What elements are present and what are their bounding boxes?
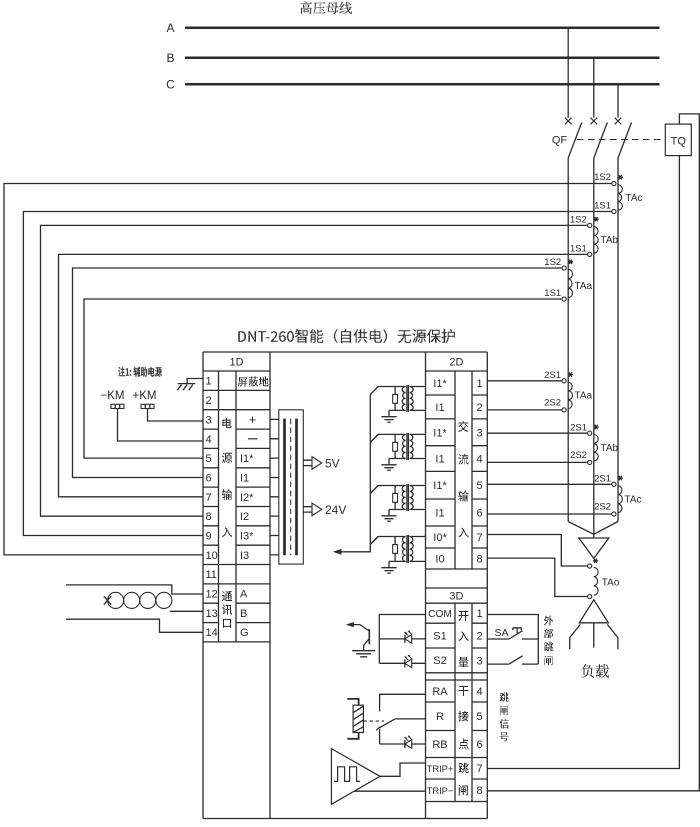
label 口	[223, 619, 231, 628]
svg-text:2S2: 2S2	[570, 450, 587, 461]
CT TAb polarity mark	[594, 217, 599, 221]
input transformer 1 primary winding	[402, 387, 405, 411]
svg-text:1S2: 1S2	[594, 172, 611, 183]
wire +KM to 1D-3	[148, 409, 204, 422]
input transformer 3 primary winding	[402, 486, 405, 510]
busbar phase B	[185, 57, 660, 60]
label 跳	[500, 692, 509, 702]
svg-text:I3: I3	[240, 550, 249, 562]
phase convergence	[568, 522, 618, 535]
svg-text:4: 4	[476, 686, 482, 698]
svg-text:1: 1	[206, 376, 212, 388]
svg-text:7: 7	[476, 532, 482, 544]
svg-text:3: 3	[476, 427, 482, 439]
wire TAc 2S2 to 2D-6	[487, 513, 612, 515]
resistor on transformer 1 primary	[394, 387, 396, 411]
svg-text:8: 8	[476, 785, 482, 797]
label 接	[459, 711, 469, 722]
label 部	[544, 628, 553, 638]
svg-text:B: B	[240, 608, 247, 620]
svg-text:2: 2	[206, 395, 212, 407]
input transformer 4 core	[407, 535, 409, 563]
svg-text:I1*: I1*	[433, 480, 447, 492]
wire TQ top to right rail	[487, 114, 699, 791]
svg-text:2S1: 2S1	[594, 474, 611, 485]
1D row lines	[203, 390, 270, 642]
svg-text:I1*: I1*	[240, 453, 254, 465]
load feeder center	[593, 623, 595, 648]
transformer 2 primary top wire	[370, 434, 405, 442]
svg-text:I1: I1	[240, 473, 249, 485]
cable termination lower triangle	[579, 600, 608, 623]
label 干	[459, 686, 469, 696]
CT TAc polarity mark	[618, 175, 623, 179]
svg-text:I1*: I1*	[433, 378, 447, 390]
CT TAa polarity mark	[568, 260, 573, 264]
label 量	[459, 657, 469, 667]
svg-text:3: 3	[476, 655, 482, 667]
stubs 1D rows 3-10 to bus	[270, 419, 279, 555]
trip pulse comparator	[331, 749, 380, 805]
CT TAb polarity mark	[594, 425, 599, 429]
ground transformer 2	[381, 459, 396, 471]
wire RA to contact	[380, 694, 426, 711]
svg-text:7: 7	[476, 763, 482, 775]
label 流	[459, 454, 469, 465]
label 源	[222, 453, 232, 463]
svg-text:4: 4	[476, 454, 482, 466]
CT TAa terminal 2S2	[562, 408, 566, 412]
pulse waveform	[334, 767, 360, 782]
CT TAb terminal 2S1	[588, 431, 592, 435]
load feeder left	[570, 624, 581, 649]
label 入	[459, 528, 469, 538]
input transformer 3 core	[407, 484, 409, 511]
wire TAa 2S2 to 2D-2	[487, 409, 562, 411]
svg-text:I2*: I2*	[240, 492, 254, 504]
ground transformer 1	[381, 410, 396, 422]
svg-text:RA: RA	[432, 686, 448, 698]
svg-text:2S1: 2S1	[544, 370, 561, 381]
opto emitter to ground	[364, 639, 370, 651]
svg-text:S2: S2	[433, 655, 446, 667]
transformer 3 primary bottom wire	[389, 509, 406, 511]
5V supply arrow	[303, 460, 312, 465]
opto common output arrow	[346, 622, 354, 627]
opto transistor bar	[368, 629, 370, 644]
svg-text:+: +	[249, 412, 257, 427]
input transformer 2 core	[407, 433, 409, 460]
label 跳	[459, 763, 469, 774]
CT TAc winding	[618, 486, 622, 513]
3D header	[426, 588, 488, 603]
svg-text:C: C	[166, 78, 175, 92]
label 电	[223, 418, 232, 429]
ground transformer 4	[381, 561, 396, 573]
label 入	[459, 632, 469, 642]
wire TAb 2S2 to 2D-4	[487, 461, 587, 463]
svg-text:7: 7	[206, 492, 212, 504]
label high-voltage busbar title 高压母线	[301, 1, 352, 14]
svg-text:I1*: I1*	[433, 427, 447, 439]
svg-text:12: 12	[206, 589, 218, 601]
svg-text:2D: 2D	[449, 357, 463, 369]
busbar phase A	[185, 27, 660, 30]
wire S2 with LED	[379, 662, 425, 664]
svg-text:8: 8	[476, 554, 482, 566]
wire loop TAc 1S2 to 1D-10 I3	[4, 184, 612, 555]
transformer 1 primary top wire	[370, 387, 405, 395]
label 闸	[500, 706, 508, 716]
transformer 4 secondary wires to 2D	[410, 537, 426, 562]
breaker QF contact marks	[565, 118, 572, 125]
svg-text:TAa: TAa	[575, 281, 593, 292]
svg-text:I1: I1	[435, 508, 444, 520]
transformer 3 secondary wires to 2D	[410, 486, 426, 510]
transformer common line	[339, 394, 370, 551]
wire loop TAa 1S2 to 1D-6 I1	[73, 268, 563, 478]
CT TAa terminal 1S1	[562, 297, 566, 301]
3D row lines	[426, 623, 488, 801]
wire phase C tap	[617, 84, 619, 117]
svg-text:5: 5	[206, 453, 212, 465]
wire loop TAa 1S1 to 1D-5 I1*	[84, 299, 562, 458]
label 开	[459, 611, 469, 621]
svg-text:9: 9	[206, 531, 212, 543]
wire 2D-7 to TAo top	[487, 535, 587, 567]
CT TAb terminal 1S2	[588, 223, 592, 227]
internal bus dashed center	[290, 419, 292, 556]
trip element (hatched box)	[347, 699, 358, 705]
label 闸	[459, 785, 468, 796]
svg-text:2S2: 2S2	[544, 398, 561, 409]
RS485 cable bottom conductor to 1D-14	[66, 619, 203, 632]
CT TAa winding	[568, 269, 572, 297]
RS485 cable twisted coil	[108, 592, 124, 608]
CT TAo terminal bottom	[588, 594, 592, 598]
CT TAo terminal top	[588, 564, 592, 568]
svg-text:COM: COM	[428, 609, 452, 620]
svg-text:6: 6	[476, 508, 482, 520]
svg-text:1S2: 1S2	[544, 257, 561, 268]
svg-text:1: 1	[476, 378, 482, 390]
3D column lines	[455, 603, 472, 801]
SA handle	[513, 628, 521, 634]
CT TAa terminal 2S1	[562, 379, 566, 383]
svg-text:G: G	[240, 627, 249, 639]
svg-text:QF: QF	[552, 135, 568, 147]
svg-text:5: 5	[476, 480, 482, 492]
transformer 1 secondary wires to 2D	[410, 387, 426, 411]
CT TAa polarity mark	[568, 372, 573, 376]
fuse +KM	[141, 404, 154, 408]
svg-text:B: B	[166, 51, 174, 65]
input transformer 2 secondary winding	[410, 434, 413, 458]
CT TAo winding	[594, 567, 598, 595]
wire RB with LED	[380, 729, 426, 744]
label 外	[544, 616, 553, 626]
svg-text:14: 14	[206, 627, 218, 639]
resistor on transformer 3 primary	[394, 486, 396, 510]
svg-text:TAc: TAc	[626, 193, 643, 204]
CT TAa winding	[568, 382, 572, 409]
svg-text:A: A	[166, 21, 174, 35]
CT TAb winding	[594, 435, 598, 462]
svg-text:13: 13	[206, 608, 218, 620]
label 闸	[545, 656, 553, 666]
label 通	[222, 591, 232, 601]
2D column lines	[455, 371, 472, 569]
svg-text:1S1: 1S1	[570, 243, 587, 254]
note 注1: 辅助电源	[118, 367, 162, 377]
svg-text:10: 10	[206, 550, 218, 562]
resistor on transformer 2 primary	[394, 434, 396, 458]
label load 负载	[582, 664, 610, 678]
input transformer 1 secondary winding	[410, 387, 413, 411]
CT TAb terminal 1S1	[588, 252, 592, 256]
svg-text:2S2: 2S2	[594, 501, 611, 512]
svg-text:1S2: 1S2	[570, 214, 587, 225]
relay title DNT-260	[238, 329, 454, 343]
svg-text:I1: I1	[435, 402, 444, 414]
input transformer 4 primary winding	[402, 537, 405, 562]
fuse -KM	[111, 404, 124, 408]
trip coil TQ box	[665, 124, 691, 156]
label 讯	[222, 604, 232, 615]
CT TAo polarity mark	[593, 559, 598, 563]
svg-text:I0*: I0*	[433, 532, 447, 544]
wire 2D-8 to TAo bottom	[487, 558, 587, 596]
internal bus connector box	[279, 410, 304, 564]
wire phase A tap	[567, 28, 569, 118]
svg-text:SA: SA	[495, 627, 509, 639]
transformer 3 primary top wire	[370, 486, 405, 494]
label 跳	[544, 642, 553, 652]
chassis ground at 1D-1	[178, 379, 203, 384]
wire COM bracket	[379, 615, 425, 664]
label 入	[222, 528, 232, 538]
wire S1 with LED	[379, 638, 425, 640]
svg-text:5V: 5V	[325, 457, 340, 471]
svg-text:A: A	[240, 589, 248, 601]
svg-text:1S1: 1S1	[544, 288, 561, 299]
cable cross mark	[104, 596, 111, 604]
svg-text:4: 4	[206, 434, 212, 446]
load feeder right	[607, 624, 618, 649]
transformer 4 primary bottom wire	[389, 560, 406, 562]
CT TAb winding	[594, 227, 598, 253]
label 输	[222, 489, 232, 500]
wire TAa 2S1 to 2D-1	[487, 380, 562, 382]
svg-text:S1: S1	[433, 630, 446, 642]
wire TAc 2S1 to 2D-5	[487, 483, 612, 485]
input transformer 4 secondary winding	[410, 537, 413, 562]
label 点	[459, 739, 469, 750]
2D row lines	[426, 395, 488, 569]
CT TAc terminal 2S2	[612, 512, 616, 516]
wire TAb 2S1 to 2D-3	[487, 432, 587, 434]
svg-text:TAb: TAb	[601, 443, 619, 454]
wire 3D-1 external bracket	[487, 615, 538, 665]
svg-text:TAb: TAb	[601, 235, 619, 246]
wire R	[395, 718, 426, 720]
breaker QF blade phase B	[594, 123, 608, 159]
svg-text:24V: 24V	[325, 503, 346, 517]
svg-text:TAc: TAc	[625, 494, 642, 505]
input transformer 2 primary winding	[402, 434, 405, 458]
arrow on common line	[333, 549, 342, 555]
dashed mechanical link QF-TQ	[577, 139, 665, 141]
ground transformer 3	[381, 510, 396, 522]
svg-text:TRIP−: TRIP−	[427, 786, 454, 796]
relay contact arm	[378, 719, 395, 729]
svg-text:1: 1	[476, 608, 482, 620]
CT TAc terminal 2S1	[612, 482, 616, 486]
svg-text:R: R	[436, 711, 444, 723]
1D column lines	[219, 371, 237, 642]
CT TAc winding	[618, 185, 622, 210]
CT TAc polarity mark	[618, 476, 623, 480]
SA switch lower	[487, 656, 538, 664]
wire phase B tap	[593, 58, 595, 118]
wire phase C vertical	[617, 158, 619, 522]
wire TRIP-	[354, 790, 425, 792]
CT TAc terminal 1S1	[612, 209, 616, 213]
svg-text:TAo: TAo	[602, 577, 620, 588]
busbar phase C	[185, 83, 660, 86]
svg-text:I3*: I3*	[240, 531, 254, 543]
svg-text:3: 3	[206, 414, 212, 426]
svg-text:3D: 3D	[449, 591, 463, 603]
svg-text:8: 8	[206, 511, 212, 523]
breaker QF blade phase C	[618, 123, 632, 159]
label 号	[500, 732, 509, 741]
breaker QF blade phase A	[568, 123, 582, 159]
cable termination upper triangle	[579, 538, 609, 558]
svg-text:+KM: +KM	[133, 390, 157, 402]
svg-text:−KM: −KM	[101, 390, 125, 402]
svg-text:1D: 1D	[229, 357, 243, 369]
RS485 cable top conductor	[66, 585, 203, 594]
CT TAb terminal 2S2	[588, 460, 592, 464]
transformer 2 primary bottom wire	[389, 458, 406, 460]
wire coil to 1D-13	[170, 610, 203, 612]
SA switch upper	[487, 631, 538, 639]
ground	[352, 651, 375, 657]
CT TAa terminal 1S2	[562, 266, 566, 270]
svg-text:6: 6	[206, 473, 212, 485]
input transformer 3 secondary winding	[410, 486, 413, 510]
svg-text:I0: I0	[435, 554, 444, 566]
terminal strip 1D outline	[203, 351, 487, 353]
input transformer 1 core	[407, 385, 409, 412]
transformer 1 primary bottom wire	[389, 409, 406, 411]
24V supply arrow	[303, 507, 312, 512]
svg-text:TQ: TQ	[671, 136, 687, 148]
svg-text:TAa: TAa	[575, 391, 593, 402]
wire comparator to TRIP+	[380, 763, 426, 776]
transformer 4 primary top wire	[370, 537, 405, 545]
transformer 2 secondary wires to 2D	[410, 434, 426, 458]
label 屏蔽地	[238, 376, 269, 387]
wire loop TAb 1S2 to 1D-8 I2	[41, 225, 588, 516]
wire TQ bottom down right side to TRIP+	[487, 156, 679, 769]
label 交	[458, 421, 468, 432]
svg-text:5: 5	[476, 711, 482, 723]
svg-text:I2: I2	[240, 511, 249, 523]
wire -KM to 1D-4	[118, 409, 204, 442]
wire loop TAb 1S1 to 1D-7 I2*	[59, 254, 588, 496]
svg-text:6: 6	[476, 739, 482, 751]
svg-text:RB: RB	[432, 739, 447, 751]
label 信	[500, 719, 509, 729]
svg-text:2S1: 2S1	[570, 423, 587, 434]
label 输	[459, 491, 469, 502]
svg-text:TRIP+: TRIP+	[427, 764, 454, 774]
svg-text:2: 2	[476, 402, 482, 414]
svg-text:11: 11	[206, 569, 217, 581]
svg-text:1S1: 1S1	[594, 201, 611, 212]
wire loop TAc 1S1 to 1D-9 I3*	[23, 212, 611, 536]
internal bus bars	[283, 419, 286, 556]
wire phase A vertical	[567, 158, 569, 522]
terminal strip 2D/3D outline	[425, 352, 427, 819]
resistor on transformer 4 primary	[394, 537, 396, 562]
svg-text:I1: I1	[435, 454, 444, 466]
svg-text:2: 2	[476, 631, 482, 643]
wire phase B vertical	[593, 158, 595, 538]
dashed link to contact	[363, 720, 384, 722]
CT TAc terminal 1S2	[612, 181, 616, 185]
